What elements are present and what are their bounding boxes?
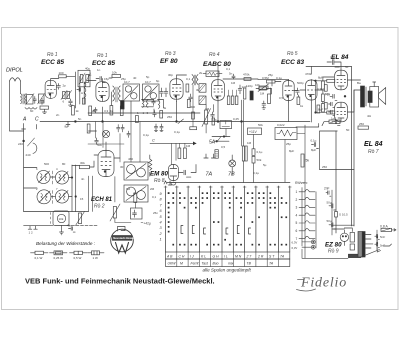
svg-text:10k: 10k — [255, 83, 260, 87]
wires — [332, 228, 377, 244]
svg-text:30: 30 — [120, 165, 124, 169]
ground — [43, 110, 47, 114]
tube Rö1a ECC85 — [45, 80, 56, 98]
svg-text:Fidelio: Fidelio — [300, 276, 347, 291]
prim wires — [347, 80, 360, 112]
svg-text:C: C — [152, 138, 155, 143]
tube Rö5b ECC83 — [306, 80, 317, 100]
left resistors — [324, 85, 327, 92]
svg-text:2: 2 — [296, 198, 298, 202]
svg-text:15p: 15p — [104, 77, 109, 81]
bus lines — [24, 212, 89, 226]
svg-text:7A: 7A — [280, 255, 285, 259]
svg-text:Belastung der Widerstände :: Belastung der Widerstände : — [36, 241, 96, 246]
tube Rö3 EF80 — [170, 79, 183, 99]
svg-text:EL 84: EL 84 — [364, 141, 383, 148]
terminals — [28, 226, 37, 230]
FM ant coil arc — [33, 143, 37, 154]
svg-text:5k: 5k — [163, 106, 167, 110]
grid resistor upper — [327, 79, 335, 82]
svg-text:460: 460 — [128, 157, 133, 161]
wires above — [94, 142, 120, 158]
volume pot — [259, 86, 268, 89]
svg-text:mix: mix — [228, 262, 234, 266]
svg-text:8µ: 8µ — [65, 125, 69, 129]
core dashes 2 — [51, 191, 53, 204]
cap pair — [117, 125, 120, 132]
svg-text:I L: I L — [224, 255, 228, 259]
svg-text:50µ: 50µ — [327, 201, 332, 205]
svg-text:1M: 1M — [260, 92, 265, 96]
svg-text:300: 300 — [190, 105, 195, 109]
svg-text:8µF: 8µF — [318, 76, 323, 80]
numbers — [296, 190, 298, 241]
svg-text:5n: 5n — [229, 72, 233, 76]
svg-text:470k: 470k — [305, 72, 312, 76]
wire dipole right leg — [20, 81, 22, 94]
legend resistor 1W — [88, 252, 92, 254]
resistor b — [322, 94, 325, 102]
circle 4A — [102, 130, 109, 137]
svg-text:50k: 50k — [257, 158, 262, 162]
svg-text:2k: 2k — [92, 109, 96, 113]
Rö6 resistor below — [329, 120, 340, 123]
svg-text:240: 240 — [26, 153, 31, 157]
tube Rö4 EABC80 — [212, 80, 225, 101]
svg-text:10k: 10k — [212, 118, 217, 122]
verticals to PSU — [335, 131, 337, 233]
svg-text:10k: 10k — [59, 217, 64, 221]
caps+gnd — [154, 124, 157, 132]
elco dark — [250, 91, 253, 100]
svg-text:1M: 1M — [247, 141, 252, 145]
coil L3 — [25, 108, 37, 110]
caps between — [160, 88, 164, 97]
cathode resistor row — [72, 106, 75, 116]
svg-text:Rö 7: Rö 7 — [368, 149, 379, 155]
svg-text:250: 250 — [167, 115, 172, 119]
anode resistor h — [190, 127, 197, 130]
caps 40n — [69, 227, 76, 232]
cap+gnd — [262, 101, 266, 109]
wire — [223, 78, 258, 80]
svg-text:30p: 30p — [168, 73, 173, 77]
svg-text:50: 50 — [346, 128, 350, 132]
svg-text:VEB Funk- und Feinmechanik Neu: VEB Funk- und Feinmechanik Neustadt-Glew… — [25, 277, 215, 286]
50u caps on vertical — [329, 204, 335, 210]
svg-text:5nF: 5nF — [380, 244, 385, 248]
svg-text:1nF: 1nF — [330, 56, 335, 60]
svg-text:1: 1 — [296, 190, 298, 194]
svg-text:TB: TB — [247, 262, 252, 266]
transformer winding 1 — [350, 233, 354, 243]
svg-text:A B: A B — [166, 255, 173, 259]
dial lamp — [229, 160, 236, 167]
svg-text:470k: 470k — [243, 73, 250, 77]
svg-text:120p: 120p — [246, 84, 253, 88]
elco dark — [121, 101, 125, 110]
stamp circle — [111, 229, 134, 252]
svg-text:2nF: 2nF — [324, 187, 330, 191]
svg-text:ECC 85: ECC 85 — [41, 59, 64, 66]
svg-text:25p: 25p — [268, 73, 273, 77]
resistor 30k to ECH81 — [79, 165, 89, 168]
caps pair — [33, 97, 36, 104]
svg-text:4n: 4n — [81, 177, 85, 181]
svg-text:5nF: 5nF — [380, 235, 385, 239]
0,1µ cap in box — [312, 143, 319, 149]
svg-text:1 W: 1 W — [93, 256, 99, 260]
svg-text:1k: 1k — [110, 109, 114, 113]
coil cap combo — [159, 101, 160, 109]
tube EL84 upper — [335, 70, 348, 90]
svg-text:Ferrit: Ferrit — [191, 262, 200, 266]
svg-text:0,25: 0,25 — [233, 117, 239, 121]
svg-text:10k: 10k — [112, 71, 117, 75]
resistor striped — [215, 150, 218, 159]
shield box w/ zigzag — [206, 71, 219, 77]
svg-text:8µF: 8µF — [318, 108, 323, 112]
svg-text:30k: 30k — [80, 161, 85, 165]
svg-text:DIPOL: DIPOL — [6, 68, 23, 74]
vertical 332 — [331, 190, 333, 235]
wire mid bus — [88, 112, 200, 114]
resistor a — [322, 81, 325, 90]
resistor R2 — [59, 75, 66, 78]
screen col — [192, 85, 194, 127]
svg-text:EZ 80: EZ 80 — [325, 242, 342, 249]
resistor R4 — [112, 75, 121, 78]
svg-text:6,3V: 6,3V — [292, 240, 298, 244]
svg-text:1n: 1n — [97, 68, 101, 72]
oscillator trimmer box — [78, 70, 90, 87]
output stage box — [320, 131, 355, 170]
svg-text:Ba: Ba — [357, 81, 361, 85]
svg-text:0,1: 0,1 — [186, 77, 191, 81]
svg-text:7: 7 — [296, 237, 298, 241]
svg-text:2M: 2M — [150, 187, 155, 191]
wire upper right to speaker — [306, 66, 352, 68]
vertical pair right — [72, 165, 76, 212]
tube Rö2 ECH81 — [98, 151, 114, 177]
svg-text:Rö 1: Rö 1 — [47, 52, 58, 58]
svg-text:alle Spulen ungedämpft: alle Spulen ungedämpft — [203, 268, 252, 273]
svg-text:A: A — [22, 117, 27, 123]
cap 120p — [238, 85, 242, 94]
coil v right — [84, 82, 86, 98]
svg-text:0,1µ: 0,1µ — [174, 130, 180, 134]
svg-text:6: 6 — [296, 229, 298, 233]
svg-text:2 R: 2 R — [257, 255, 264, 259]
svg-text:3,3: 3,3 — [104, 109, 109, 113]
feedback wire — [296, 122, 340, 127]
resistor pair — [178, 148, 181, 159]
svg-text:2 7: 2 7 — [246, 255, 252, 259]
svg-text:M N: M N — [235, 255, 242, 259]
core dashes 1 — [51, 171, 53, 184]
resistor h2 — [267, 80, 276, 83]
svg-text:5k: 5k — [306, 159, 310, 163]
double resistor — [242, 146, 244, 161]
wires — [289, 77, 334, 122]
svg-text:S 10,5: S 10,5 — [339, 213, 348, 217]
tube EL84 lower — [335, 102, 348, 122]
matrix contact dots — [168, 192, 287, 245]
verticals — [242, 100, 244, 183]
arrow right — [392, 229, 397, 231]
svg-text:0,1µ: 0,1µ — [276, 76, 282, 80]
verticals down to tone — [89, 176, 93, 212]
svg-text:Neustadt-Glewe: Neustadt-Glewe — [113, 236, 134, 240]
svg-text:0,1µ: 0,1µ — [253, 171, 259, 175]
long vertical wire — [23, 129, 25, 212]
svg-text:5: 5 — [296, 221, 298, 225]
winding dark — [348, 254, 360, 257]
IF transformer T1 — [113, 86, 115, 101]
svg-text:0,1: 0,1 — [226, 67, 231, 71]
screen resistor — [186, 84, 189, 92]
pot box — [220, 121, 232, 129]
tuned circuit box — [27, 95, 34, 105]
cap above tube — [96, 77, 105, 83]
svg-text:ECH 81: ECH 81 — [91, 197, 113, 203]
wires — [142, 100, 154, 107]
coupling coil — [21, 94, 23, 104]
coil A2 — [55, 171, 68, 184]
svg-text:50k: 50k — [325, 92, 330, 96]
cap 1nF above EL84 — [327, 60, 339, 68]
ground — [60, 226, 64, 235]
svg-text:Rö 9: Rö 9 — [328, 249, 339, 255]
T terms — [204, 154, 216, 158]
extra right-side parts — [317, 105, 320, 113]
ground — [66, 122, 70, 127]
pot with arrow — [113, 207, 116, 219]
drop wires — [311, 62, 341, 74]
svg-text:3: 3 — [296, 206, 298, 210]
under-tube parts — [40, 98, 43, 104]
wire dipole left leg — [10, 81, 24, 131]
secondary ticks — [366, 235, 373, 249]
svg-text:C H: C H — [179, 255, 185, 259]
boxed resistor 1 — [199, 84, 206, 93]
svg-text:50µ: 50µ — [327, 219, 332, 223]
trimmer pair — [63, 92, 66, 99]
wire HT bus — [40, 121, 310, 123]
box with pot circle — [53, 211, 69, 226]
left vertical wire — [315, 81, 317, 113]
svg-text:50: 50 — [345, 65, 349, 69]
svg-text:G H: G H — [213, 255, 220, 259]
caps beside pot — [211, 112, 215, 119]
resistor R1 — [40, 106, 49, 109]
svg-text:Tast: Tast — [202, 262, 209, 266]
svg-text:2k: 2k — [199, 71, 203, 75]
svg-text:0,3M: 0,3M — [317, 87, 324, 91]
fuse — [381, 228, 392, 231]
cap small — [127, 131, 130, 137]
wires — [206, 105, 226, 137]
svg-text:0,1µ: 0,1µ — [257, 150, 263, 154]
AM bandfilter box 1 — [124, 162, 148, 180]
svg-text:25n: 25n — [153, 211, 158, 215]
svg-text:1k: 1k — [300, 104, 304, 108]
svg-text:0,1µ: 0,1µ — [311, 139, 317, 143]
speaker magnet — [368, 91, 372, 103]
svg-text:40: 40 — [133, 76, 137, 80]
sec coil pair — [143, 100, 145, 108]
cap right of EM80 — [179, 170, 191, 177]
Fidelio logo — [297, 276, 348, 291]
trimmer box 2 — [39, 94, 45, 103]
5k resistor — [301, 154, 304, 167]
svg-text:Buo: Buo — [213, 262, 219, 266]
table letters — [166, 255, 285, 266]
resistor c — [322, 104, 325, 113]
matrix bracket contacts — [181, 226, 251, 235]
svg-text:+11V: +11V — [249, 130, 257, 134]
tube Rö5a ECC83 — [283, 81, 294, 101]
svg-text:15: 15 — [80, 197, 84, 201]
svg-text:100: 100 — [59, 71, 64, 75]
wire tube top — [177, 75, 187, 79]
resistor v2 — [160, 111, 163, 119]
cap h — [77, 88, 83, 93]
svg-text:EF 80: EF 80 — [160, 58, 178, 65]
matrix line top ticks — [164, 186, 291, 188]
zigzag resistor — [149, 155, 152, 176]
svg-text:EM 80: EM 80 — [150, 171, 168, 178]
svg-text:4: 4 — [160, 221, 162, 225]
svg-text:1k: 1k — [76, 109, 80, 113]
svg-text:1M: 1M — [126, 187, 131, 191]
stamp M — [116, 243, 129, 254]
svg-text:5A: 5A — [209, 140, 216, 146]
right heater bus — [315, 192, 317, 248]
speaker frame — [370, 87, 379, 108]
svg-text:80: 80 — [62, 162, 66, 166]
legend resistor 0,1W — [31, 252, 36, 254]
dipole humps — [10, 78, 21, 81]
cathode resistor mid — [330, 94, 337, 100]
svg-text:0,022: 0,022 — [277, 123, 285, 127]
svg-text:50k: 50k — [97, 143, 102, 147]
svg-text:0,1 W: 0,1 W — [35, 256, 43, 260]
svg-text:ECC 83: ECC 83 — [281, 59, 304, 66]
resistor R6 — [120, 106, 123, 116]
svg-text:Rö 2: Rö 2 — [94, 204, 105, 210]
svg-text:3k: 3k — [196, 88, 200, 92]
table grid — [166, 252, 290, 259]
svg-text:8µF: 8µF — [289, 149, 294, 153]
bandfilter box 2 — [143, 84, 160, 101]
EM80 tube — [168, 165, 178, 181]
svg-text:6p: 6p — [156, 79, 160, 83]
triple resistors — [227, 96, 230, 105]
svg-text:60: 60 — [30, 109, 34, 113]
top wire — [258, 80, 289, 86]
stamp banner — [112, 236, 131, 241]
chassis line — [167, 182, 290, 184]
svg-text:50k: 50k — [258, 123, 263, 127]
choke box — [275, 128, 297, 140]
ratio det transformer — [192, 75, 194, 85]
connecting wires — [24, 168, 72, 197]
row numbers — [159, 192, 163, 242]
svg-text:8µF: 8µF — [311, 148, 316, 152]
caps on mains — [376, 230, 378, 250]
matrix top marks — [164, 181, 172, 185]
coil B1 — [37, 190, 51, 204]
svg-text:5n: 5n — [78, 117, 82, 121]
tube Rö1b ECC85 — [96, 82, 109, 102]
svg-text:ECC 85: ECC 85 — [92, 60, 115, 67]
svg-text:0,5: 0,5 — [279, 96, 284, 100]
legend resistor 0,5W — [70, 252, 75, 254]
coil A1 — [37, 170, 50, 183]
cap 2p — [57, 84, 61, 90]
vertical wires cluster — [75, 72, 79, 108]
AM bandfilter box 2 — [124, 185, 148, 202]
mid caps — [296, 88, 300, 95]
svg-text:0,1µ: 0,1µ — [143, 133, 149, 137]
svg-text:500: 500 — [44, 162, 49, 166]
wires — [285, 125, 305, 258]
resistor v — [82, 98, 85, 104]
drop wires under bus — [88, 113, 140, 162]
cap v narrow — [244, 88, 246, 99]
svg-text:1M: 1M — [231, 81, 236, 85]
heater rows with humps — [299, 190, 315, 239]
verticals to EM80 — [172, 143, 177, 164]
matrix vertical lines — [166, 186, 290, 252]
resistor v — [136, 116, 139, 123]
drops from tubes — [103, 101, 219, 122]
svg-text:7B: 7B — [228, 172, 235, 178]
cap v — [153, 111, 157, 117]
svg-text:I J: I J — [190, 255, 194, 259]
caps — [95, 138, 99, 144]
svg-text:1M: 1M — [205, 107, 210, 111]
legend resistor 0,25W — [50, 252, 55, 254]
small rect — [212, 118, 215, 125]
svg-text:0,5: 0,5 — [221, 145, 226, 149]
stamp flag — [118, 227, 126, 232]
svg-text:5µ: 5µ — [263, 163, 267, 167]
bottom junction wire — [332, 224, 355, 226]
svg-text:0,1: 0,1 — [152, 195, 157, 199]
svg-text:S T: S T — [269, 255, 275, 259]
svg-text:4: 4 — [296, 213, 298, 217]
mains diagonal — [361, 250, 380, 258]
svg-text:0,25 W: 0,25 W — [54, 256, 64, 260]
svg-text:+42µ: +42µ — [144, 222, 151, 226]
dial lamp rows — [311, 240, 315, 244]
svg-text:25p: 25p — [121, 77, 126, 81]
resistor v — [134, 193, 137, 203]
output transformer core — [361, 86, 365, 107]
svg-text:Rö 1: Rö 1 — [97, 53, 108, 59]
svg-text:K L: K L — [201, 255, 206, 259]
coil B2 — [55, 190, 68, 203]
boxed resistor 2 — [199, 96, 206, 105]
resistor top right — [358, 126, 369, 129]
transformer winding 2 — [350, 244, 354, 250]
svg-text:Rö 3: Rö 3 — [165, 51, 176, 57]
wires tube1b top — [87, 78, 122, 106]
svg-text:7A: 7A — [206, 172, 213, 178]
svg-text:Röhren:: Röhren: — [295, 181, 308, 185]
